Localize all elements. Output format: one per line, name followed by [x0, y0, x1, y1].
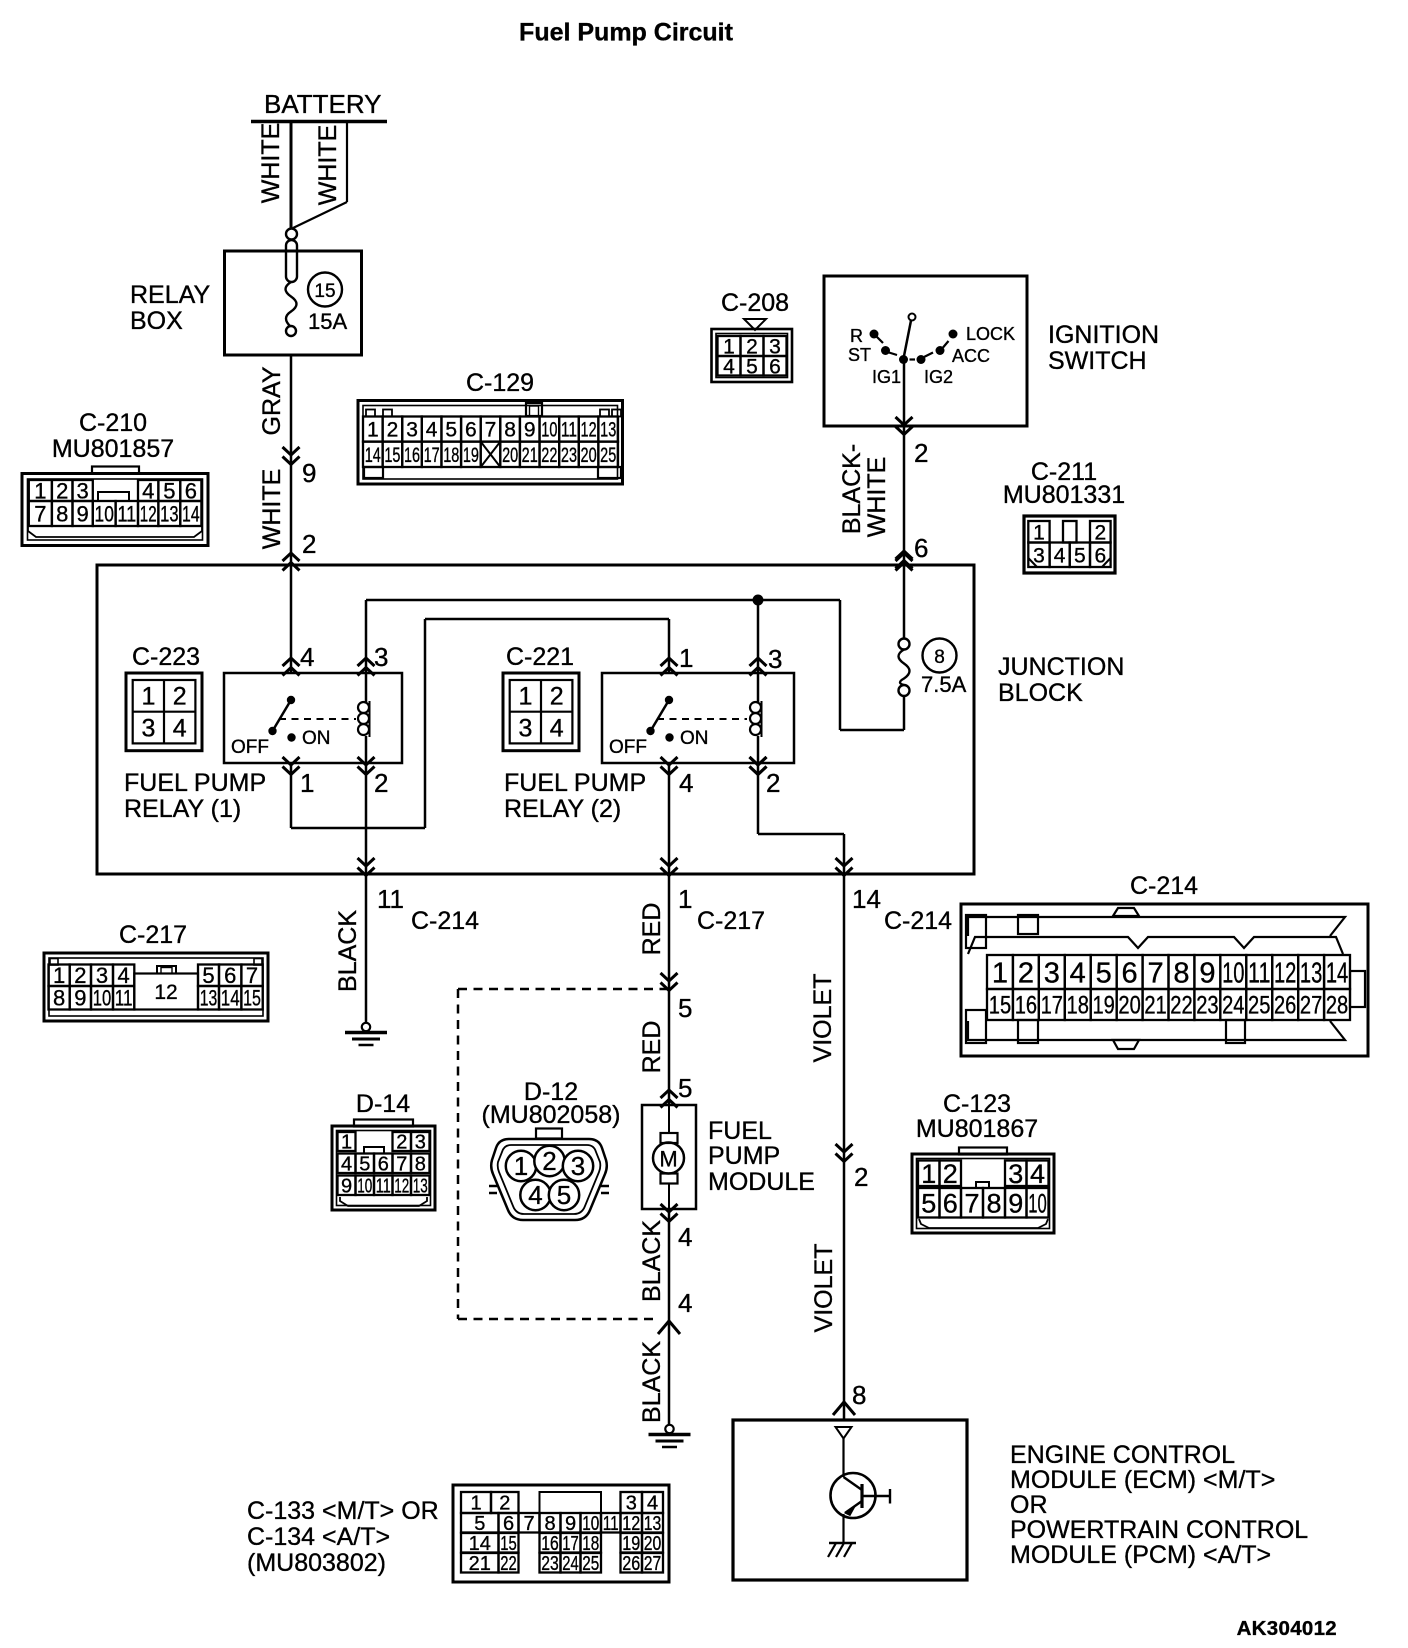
- svg-text:26: 26: [1274, 992, 1296, 1020]
- relay K2 (fuel pump relay 2): [602, 673, 794, 775]
- svg-text:13: 13: [600, 419, 616, 442]
- label: connector ref C-217 (mid): [697, 907, 765, 935]
- svg-text:4: 4: [300, 642, 314, 672]
- pin label 2 (ignition): [914, 438, 928, 468]
- svg-text:2: 2: [914, 438, 928, 468]
- svg-text:2: 2: [943, 1159, 958, 1189]
- svg-text:8: 8: [415, 1153, 426, 1175]
- connector C-221: [503, 643, 579, 751]
- svg-text:RED: RED: [638, 903, 666, 956]
- ground G2 (fuel pump): [649, 1425, 691, 1447]
- svg-text:3: 3: [571, 1151, 585, 1181]
- ECM/PCM box outline: [733, 1420, 967, 1580]
- svg-text:BATTERY: BATTERY: [264, 89, 382, 119]
- svg-text:9: 9: [341, 1175, 352, 1197]
- svg-text:12: 12: [622, 1513, 640, 1535]
- svg-text:27: 27: [1300, 992, 1322, 1020]
- svg-text:1: 1: [514, 1151, 528, 1181]
- svg-text:4: 4: [1030, 1159, 1045, 1189]
- svg-text:1: 1: [367, 419, 379, 442]
- svg-text:5: 5: [678, 993, 692, 1023]
- svg-text:1: 1: [53, 963, 65, 988]
- svg-text:26: 26: [622, 1553, 640, 1575]
- wire: battery left leg (WHITE): [257, 122, 291, 230]
- junction block outline: [97, 565, 974, 874]
- svg-text:19: 19: [463, 444, 479, 467]
- svg-text:22: 22: [500, 1553, 517, 1575]
- svg-text:12: 12: [394, 1175, 409, 1197]
- svg-text:6: 6: [914, 533, 928, 563]
- svg-text:1: 1: [1033, 521, 1045, 544]
- label: FUEL PUMP MODULE: [708, 1117, 815, 1196]
- fuse F2 7.5A symbol: [899, 639, 910, 731]
- ignition switch SW1: [824, 276, 1027, 435]
- svg-text:3: 3: [406, 419, 418, 442]
- wire: feed to relay1 pin 4 (WHITE cont.): [283, 565, 300, 676]
- wire: battery right leg (WHITE): [293, 122, 347, 229]
- wire: relay2 pin4 to fuel pump (RED): [638, 763, 678, 1108]
- svg-text:PUMP: PUMP: [708, 1142, 780, 1170]
- pin label 5 (dashed box): [678, 993, 692, 1023]
- wire: ignition switch to junction (BLACK-WHITE): [838, 426, 913, 571]
- svg-text:C-210: C-210: [79, 409, 147, 437]
- svg-text:19: 19: [1092, 992, 1114, 1020]
- svg-text:WHITE: WHITE: [258, 469, 286, 550]
- svg-text:3: 3: [518, 714, 532, 742]
- svg-text:2: 2: [542, 1146, 556, 1176]
- svg-text:7.5A: 7.5A: [921, 672, 967, 697]
- svg-text:15: 15: [989, 992, 1011, 1020]
- svg-text:5: 5: [921, 1188, 936, 1218]
- svg-text:1: 1: [678, 884, 692, 914]
- svg-text:18: 18: [582, 1533, 599, 1555]
- fuse number label (15) 15A: [308, 273, 347, 335]
- svg-text:OR: OR: [1010, 1491, 1048, 1519]
- svg-text:C-129: C-129: [466, 369, 534, 397]
- svg-text:9: 9: [565, 1513, 576, 1535]
- svg-text:5: 5: [445, 419, 457, 442]
- wire: relay2 coil pin 3 riser: [750, 600, 767, 676]
- pin label 4 (dashed box): [678, 1288, 692, 1318]
- svg-text:IG2: IG2: [924, 367, 953, 387]
- svg-text:ON: ON: [680, 728, 709, 749]
- svg-text:9: 9: [1199, 957, 1215, 989]
- wire: relay2 pin2 to ECM (VIOLET): [750, 757, 856, 1420]
- svg-text:10: 10: [95, 501, 114, 526]
- title: Fuel Pump Circuit: [519, 19, 734, 47]
- pin label 1 (C-217): [678, 884, 692, 914]
- svg-text:2: 2: [374, 768, 388, 798]
- connector D-12: [482, 1078, 621, 1220]
- svg-text:5: 5: [474, 1513, 485, 1535]
- svg-text:11: 11: [115, 986, 133, 1011]
- svg-text:16: 16: [1015, 992, 1037, 1020]
- svg-text:10: 10: [541, 419, 557, 442]
- svg-text:RELAY (2): RELAY (2): [504, 795, 621, 823]
- pin label 3 (relay1): [374, 642, 388, 672]
- svg-text:4: 4: [550, 714, 564, 742]
- svg-text:11: 11: [117, 501, 136, 526]
- svg-text:4: 4: [679, 768, 693, 798]
- svg-text:5: 5: [202, 963, 214, 988]
- svg-text:6: 6: [185, 478, 197, 503]
- svg-text:VIOLET: VIOLET: [809, 974, 837, 1063]
- svg-text:M: M: [659, 1147, 677, 1172]
- svg-text:2: 2: [56, 478, 68, 503]
- pin label 1 (relay2 top): [679, 643, 693, 673]
- svg-text:OFF: OFF: [609, 737, 647, 758]
- svg-text:MODULE (ECM) <M/T>: MODULE (ECM) <M/T>: [1010, 1466, 1275, 1494]
- svg-text:20: 20: [502, 444, 518, 467]
- svg-text:LOCK: LOCK: [966, 324, 1015, 344]
- svg-text:20: 20: [644, 1533, 662, 1555]
- connector C-223: [126, 643, 202, 751]
- svg-text:7: 7: [246, 963, 258, 988]
- svg-text:WHITE: WHITE: [257, 123, 285, 204]
- svg-text:20: 20: [1118, 992, 1140, 1020]
- svg-text:BLACK: BLACK: [334, 910, 362, 992]
- svg-text:MU801857: MU801857: [52, 435, 174, 463]
- svg-text:25: 25: [600, 444, 616, 467]
- svg-text:6: 6: [943, 1188, 958, 1218]
- wire: relay1 pin2 to ground (BLACK): [334, 763, 375, 1023]
- svg-text:4: 4: [528, 1180, 542, 1210]
- svg-text:9: 9: [77, 501, 89, 526]
- svg-text:POWERTRAIN CONTROL: POWERTRAIN CONTROL: [1010, 1516, 1308, 1544]
- svg-text:ENGINE CONTROL: ENGINE CONTROL: [1010, 1441, 1235, 1469]
- fuse F1 15A symbol: [286, 229, 298, 337]
- pin label 9: [302, 458, 316, 488]
- svg-text:C-123: C-123: [943, 1090, 1011, 1118]
- svg-text:(MU803802): (MU803802): [247, 1549, 386, 1577]
- svg-text:7: 7: [523, 1513, 534, 1535]
- relay box: [130, 251, 362, 355]
- battery B1: [251, 89, 387, 122]
- svg-text:10: 10: [93, 986, 112, 1011]
- svg-text:IG1: IG1: [872, 367, 901, 387]
- svg-text:3: 3: [96, 963, 108, 988]
- svg-text:4: 4: [341, 1153, 352, 1175]
- wire: bus from relay1 coil to fuse F2 (y600): [366, 600, 904, 730]
- svg-text:22: 22: [541, 444, 557, 467]
- svg-text:D-14: D-14: [356, 1090, 410, 1118]
- svg-text:11: 11: [376, 1175, 391, 1197]
- svg-text:C-208: C-208: [721, 289, 789, 317]
- svg-text:9: 9: [524, 419, 536, 442]
- svg-text:8: 8: [852, 1380, 866, 1410]
- svg-text:2: 2: [1094, 521, 1106, 544]
- label: connector ref C-214 (left): [411, 907, 479, 935]
- svg-text:9: 9: [302, 458, 316, 488]
- pin label 11 (C-214): [377, 884, 404, 914]
- svg-text:C-217: C-217: [119, 921, 187, 949]
- svg-text:ON: ON: [302, 728, 331, 749]
- pin label 14 (C-214): [852, 884, 881, 914]
- svg-text:1: 1: [341, 1132, 352, 1154]
- svg-text:12: 12: [140, 501, 157, 526]
- svg-text:5: 5: [359, 1153, 370, 1175]
- svg-text:6: 6: [1122, 957, 1138, 989]
- label: C-133 / C-134: [247, 1497, 439, 1577]
- connector C-133/C-134: [453, 1485, 669, 1582]
- svg-text:SWITCH: SWITCH: [1048, 347, 1147, 375]
- svg-text:BLACK-: BLACK-: [838, 444, 866, 534]
- svg-text:15: 15: [314, 281, 335, 302]
- svg-text:7: 7: [34, 501, 46, 526]
- pin label 2 (C-123): [854, 1162, 868, 1192]
- motor M1 (fuel pump): [642, 1105, 696, 1222]
- svg-text:8: 8: [986, 1188, 1001, 1218]
- svg-text:6: 6: [465, 419, 477, 442]
- svg-text:23: 23: [561, 444, 577, 467]
- svg-text:22: 22: [1170, 992, 1192, 1020]
- svg-text:13: 13: [160, 501, 178, 526]
- svg-text:R: R: [850, 326, 863, 346]
- label: FUEL PUMP RELAY (1): [124, 769, 266, 823]
- svg-text:13: 13: [644, 1513, 662, 1535]
- svg-text:12: 12: [581, 419, 597, 442]
- pin label 6 (junction): [914, 533, 928, 563]
- svg-text:11: 11: [603, 1513, 619, 1535]
- svg-text:1: 1: [470, 1493, 481, 1515]
- svg-text:C-214: C-214: [1130, 872, 1198, 900]
- ground G3 (ECM internal): [828, 1543, 856, 1557]
- svg-text:10: 10: [1028, 1188, 1047, 1218]
- svg-text:2: 2: [854, 1162, 868, 1192]
- connector C-210: [22, 409, 208, 546]
- pin label 8 (ECM): [852, 1380, 866, 1410]
- svg-text:3: 3: [374, 642, 388, 672]
- svg-text:C-214: C-214: [411, 907, 479, 935]
- svg-text:9: 9: [74, 986, 86, 1011]
- svg-text:27: 27: [644, 1553, 662, 1575]
- svg-text:4: 4: [678, 1288, 692, 1318]
- svg-text:13: 13: [413, 1175, 428, 1197]
- svg-text:6: 6: [378, 1153, 389, 1175]
- svg-text:VIOLET: VIOLET: [810, 1244, 838, 1333]
- svg-text:15A: 15A: [308, 309, 347, 334]
- svg-text:2: 2: [1018, 957, 1034, 989]
- svg-text:1: 1: [300, 768, 314, 798]
- svg-text:1: 1: [992, 957, 1008, 989]
- svg-text:3: 3: [77, 478, 89, 503]
- svg-text:5: 5: [1096, 957, 1112, 989]
- svg-text:24: 24: [562, 1553, 579, 1575]
- ground G1 (relay1 pin2): [345, 1023, 387, 1045]
- pin label 4 (module): [678, 1222, 692, 1252]
- svg-text:MU801331: MU801331: [1003, 481, 1125, 509]
- svg-text:8: 8: [56, 501, 68, 526]
- svg-text:C-223: C-223: [132, 643, 200, 671]
- svg-text:4: 4: [142, 478, 154, 503]
- svg-text:MODULE (PCM) <A/T>: MODULE (PCM) <A/T>: [1010, 1541, 1271, 1569]
- svg-text:25: 25: [1248, 992, 1270, 1020]
- svg-text:8: 8: [53, 986, 65, 1011]
- svg-text:ST: ST: [848, 345, 871, 365]
- svg-text:4: 4: [426, 419, 438, 442]
- svg-text:4: 4: [678, 1222, 692, 1252]
- label: connector ref C-214 (right): [884, 907, 952, 935]
- svg-text:17: 17: [562, 1533, 579, 1555]
- connector D-14: [332, 1090, 435, 1210]
- transistor Q1 (in ECM): [831, 1427, 891, 1543]
- svg-text:MU801867: MU801867: [916, 1115, 1038, 1143]
- pin label 4 (relay2 bottom): [679, 768, 693, 798]
- svg-text:9: 9: [1008, 1188, 1023, 1218]
- svg-text:7: 7: [485, 419, 497, 442]
- connector C-217: [44, 921, 268, 1021]
- svg-text:12: 12: [154, 981, 177, 1004]
- svg-text:28: 28: [1326, 992, 1348, 1020]
- svg-text:23: 23: [1196, 992, 1218, 1020]
- svg-text:6: 6: [503, 1513, 514, 1535]
- connector C-208: [712, 289, 793, 382]
- svg-text:1: 1: [141, 683, 155, 711]
- svg-text:RED: RED: [638, 1021, 666, 1074]
- svg-text:15: 15: [384, 444, 400, 467]
- svg-text:14: 14: [852, 884, 881, 914]
- svg-text:RELAY: RELAY: [130, 281, 210, 309]
- svg-text:3: 3: [1044, 957, 1060, 989]
- fuse number label (8) 7.5A: [921, 639, 967, 698]
- svg-text:C-133 <M/T> OR: C-133 <M/T> OR: [247, 1497, 439, 1525]
- svg-text:25: 25: [582, 1553, 599, 1575]
- pin label 5 (module): [678, 1073, 692, 1103]
- svg-text:13: 13: [200, 986, 218, 1011]
- svg-text:3: 3: [1008, 1159, 1023, 1189]
- svg-text:21: 21: [469, 1553, 491, 1575]
- svg-text:BLACK: BLACK: [638, 1341, 666, 1423]
- svg-text:14: 14: [365, 444, 381, 467]
- svg-text:2: 2: [766, 768, 780, 798]
- svg-text:18: 18: [1067, 992, 1089, 1020]
- connector C-211: [1003, 458, 1125, 573]
- svg-text:OFF: OFF: [231, 737, 269, 758]
- pin label 2: [302, 529, 316, 559]
- svg-text:11: 11: [377, 884, 404, 914]
- svg-text:2: 2: [396, 1132, 407, 1154]
- svg-text:16: 16: [404, 444, 420, 467]
- svg-text:GRAY: GRAY: [258, 366, 286, 435]
- wire: fuse to junction block (GRAY/WHITE): [258, 355, 300, 571]
- svg-text:17: 17: [424, 444, 440, 467]
- svg-text:1: 1: [679, 643, 693, 673]
- svg-text:10: 10: [357, 1175, 372, 1197]
- svg-text:WHITE: WHITE: [863, 457, 891, 538]
- svg-text:3: 3: [141, 714, 155, 742]
- svg-text:FUEL: FUEL: [708, 1117, 772, 1145]
- svg-text:17: 17: [1041, 992, 1063, 1020]
- svg-text:ACC: ACC: [952, 346, 990, 366]
- svg-text:4: 4: [647, 1493, 658, 1515]
- svg-text:23: 23: [541, 1553, 559, 1575]
- svg-text:8: 8: [1173, 957, 1189, 989]
- wire: bus relay1 pin1 to relay2 pin1 (y619): [291, 619, 678, 828]
- svg-text:6: 6: [224, 963, 236, 988]
- svg-text:11: 11: [561, 419, 577, 442]
- pin label 2 (relay2 bottom): [766, 768, 780, 798]
- svg-text:14: 14: [469, 1533, 491, 1555]
- junction block label: [998, 653, 1124, 707]
- svg-text:1: 1: [518, 683, 532, 711]
- svg-text:6: 6: [769, 355, 781, 378]
- svg-text:2: 2: [74, 963, 86, 988]
- label: ENGINE CONTROL MODULE: [1010, 1441, 1308, 1569]
- svg-text:MODULE: MODULE: [708, 1168, 815, 1196]
- svg-text:IGNITION: IGNITION: [1048, 321, 1159, 349]
- svg-text:5: 5: [1074, 544, 1086, 567]
- svg-text:11: 11: [1248, 957, 1270, 989]
- wire: relay1 coil pin 3 riser: [358, 600, 375, 676]
- svg-text:19: 19: [622, 1533, 640, 1555]
- svg-text:16: 16: [541, 1533, 559, 1555]
- svg-text:C-221: C-221: [506, 643, 574, 671]
- svg-text:5: 5: [163, 478, 175, 503]
- svg-text:RELAY (1): RELAY (1): [124, 795, 241, 823]
- svg-text:(MU802058): (MU802058): [482, 1101, 621, 1129]
- svg-text:1: 1: [921, 1159, 936, 1189]
- pin label 1 (relay1 bottom): [300, 768, 314, 798]
- svg-text:2: 2: [302, 529, 316, 559]
- svg-text:4: 4: [723, 355, 735, 378]
- svg-text:12: 12: [1274, 957, 1296, 989]
- svg-text:21: 21: [1144, 992, 1166, 1020]
- svg-text:18: 18: [443, 444, 459, 467]
- svg-text:15: 15: [500, 1533, 517, 1555]
- svg-text:7: 7: [964, 1188, 979, 1218]
- svg-text:2: 2: [387, 419, 399, 442]
- connector C-214: [961, 872, 1368, 1056]
- relay K1 (fuel pump relay 1): [224, 673, 402, 775]
- svg-text:15: 15: [243, 986, 261, 1011]
- svg-text:3: 3: [415, 1132, 426, 1154]
- pin label 3 (relay2): [768, 644, 782, 674]
- svg-text:20: 20: [581, 444, 597, 467]
- svg-text:5: 5: [746, 355, 758, 378]
- node: junction dot on bus: [753, 595, 764, 606]
- svg-text:C-217: C-217: [697, 907, 765, 935]
- svg-text:BLACK: BLACK: [638, 1220, 666, 1302]
- svg-text:AK304012: AK304012: [1237, 1617, 1337, 1640]
- pin label 4 (relay1): [300, 642, 314, 672]
- svg-text:8: 8: [934, 647, 945, 668]
- svg-text:Fuel Pump Circuit: Fuel Pump Circuit: [519, 19, 734, 47]
- svg-text:2: 2: [173, 683, 187, 711]
- connector C-129: [358, 369, 623, 484]
- svg-text:7: 7: [396, 1153, 407, 1175]
- svg-text:5: 5: [678, 1073, 692, 1103]
- svg-text:JUNCTION: JUNCTION: [998, 653, 1124, 681]
- svg-text:FUEL PUMP: FUEL PUMP: [504, 769, 646, 797]
- svg-text:21: 21: [522, 444, 538, 467]
- label: AK304012: [1237, 1617, 1337, 1640]
- svg-text:C-134 <A/T>: C-134 <A/T>: [247, 1523, 390, 1551]
- svg-text:2: 2: [550, 683, 564, 711]
- svg-text:10: 10: [582, 1513, 599, 1535]
- svg-text:4: 4: [1054, 544, 1066, 567]
- svg-text:2: 2: [499, 1493, 510, 1515]
- svg-text:FUEL PUMP: FUEL PUMP: [124, 769, 266, 797]
- svg-text:4: 4: [118, 963, 130, 988]
- pin label 2 (relay1 bottom): [374, 768, 388, 798]
- fuel pump module boundary (dashed): [458, 989, 672, 1319]
- svg-text:BOX: BOX: [130, 307, 183, 335]
- svg-text:24: 24: [1222, 992, 1244, 1020]
- svg-text:8: 8: [544, 1513, 555, 1535]
- label: FUEL PUMP RELAY (2): [504, 769, 646, 823]
- svg-text:5: 5: [557, 1180, 571, 1210]
- svg-text:3: 3: [626, 1493, 637, 1515]
